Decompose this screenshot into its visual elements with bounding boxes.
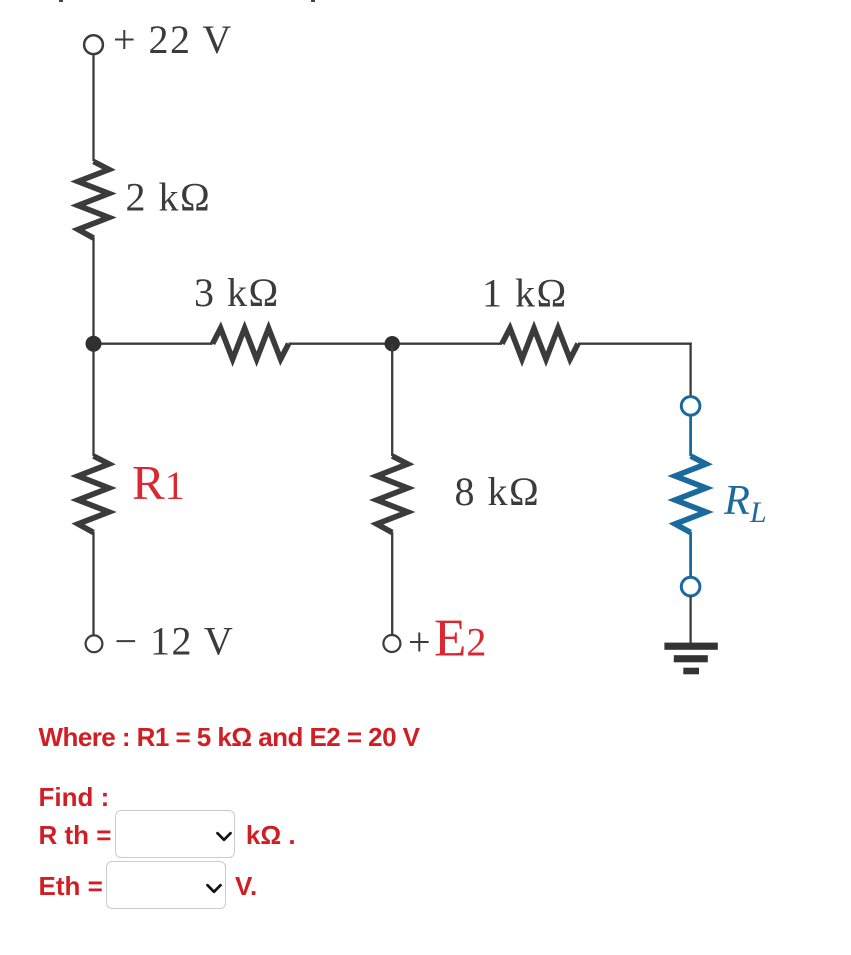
svg-text:L: L bbox=[749, 496, 767, 529]
resistor 1 kOhm bbox=[502, 328, 578, 359]
text: R th = bbox=[39, 822, 112, 848]
svg-text:8 kΩ: 8 kΩ bbox=[455, 469, 541, 514]
wire to ground bbox=[689, 596, 691, 643]
svg-text:− 12 V: − 12 V bbox=[115, 619, 235, 664]
svg-text:+ 22 V: + 22 V bbox=[113, 17, 233, 62]
bus wire middle segment bbox=[289, 343, 502, 345]
terminal +22V circle bbox=[84, 35, 103, 54]
resistor 2 kOhm bbox=[78, 162, 109, 239]
cropped text remnant top-middle bbox=[311, 0, 315, 2]
text: V. bbox=[235, 873, 257, 899]
resistor RL (blue) bbox=[675, 456, 706, 533]
blue wire to RL bbox=[689, 415, 692, 456]
circuit schematic drawing bbox=[0, 0, 851, 700]
wire node B down to 8k bbox=[391, 344, 393, 456]
bus wire right segment bbox=[578, 343, 692, 345]
svg-text:R1: R1 bbox=[132, 455, 185, 510]
svg-text:E2: E2 bbox=[434, 610, 486, 668]
svg-text:2 kΩ: 2 kΩ bbox=[126, 174, 212, 219]
text: Where line bbox=[39, 724, 420, 750]
svg-text:R: R bbox=[723, 477, 750, 524]
wire R1 to -12V terminal bbox=[92, 532, 94, 636]
RL top terminal circle (blue) bbox=[681, 397, 700, 416]
svg-text:+: + bbox=[408, 620, 431, 665]
text: kOhm . bbox=[246, 822, 296, 848]
RL bottom terminal circle (blue) bbox=[681, 577, 700, 596]
cropped text remnant top-left bbox=[59, 0, 63, 2]
wire corner bus to RL bbox=[689, 343, 691, 397]
node B (middle junction dot) bbox=[385, 336, 400, 351]
text: Find line bbox=[39, 784, 110, 810]
bus wire left segment bbox=[94, 343, 213, 345]
svg-text:1 kΩ: 1 kΩ bbox=[482, 271, 568, 316]
terminal -12V circle bbox=[86, 635, 103, 652]
terminal E2 circle bbox=[383, 635, 400, 652]
wire top terminal to 2k bbox=[92, 54, 94, 161]
resistor 8 kOhm bbox=[377, 456, 408, 533]
svg-text:3 kΩ: 3 kΩ bbox=[194, 270, 280, 315]
resistor 3 kOhm bbox=[213, 328, 289, 359]
ground bbox=[664, 643, 717, 675]
node A (left junction dot) bbox=[86, 336, 102, 352]
dropdown select Eth bbox=[106, 861, 226, 909]
dropdown select Rth bbox=[115, 810, 235, 858]
wire 8k to E2 terminal bbox=[391, 532, 393, 635]
wire 2k down to bus / R1 bbox=[92, 237, 94, 456]
resistor R1 bbox=[78, 456, 109, 533]
blue wire RL to bottom circle bbox=[689, 532, 692, 577]
text: Eth = bbox=[39, 873, 103, 899]
